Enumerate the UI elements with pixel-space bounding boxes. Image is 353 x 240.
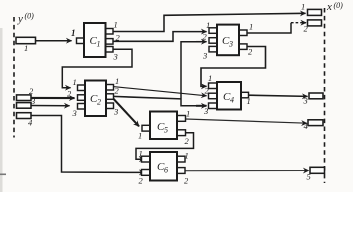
svg-text:6: 6 [164,166,168,175]
block C5 [138,109,190,147]
wire Y1 to C1 input [36,40,72,42]
scan gutter smudge left edge [0,28,6,192]
svg-text:3: 3 [228,40,233,49]
svg-text:2: 2 [29,86,34,96]
block C3 [202,20,253,61]
wire C2 out2 to C5 in1 (steep diagonal) [113,98,139,126]
svg-text:2: 2 [248,47,253,57]
wire Y3 to C2 in3 [31,105,70,107]
net label y superscript [17,12,34,26]
svg-text:3: 3 [72,108,77,118]
svg-text:x: x [326,1,332,13]
input rail Y (dashed) [13,17,15,138]
block C2 [67,76,120,118]
terminal Y2 [17,86,35,101]
svg-text:1: 1 [97,40,101,49]
svg-text:1: 1 [24,43,28,53]
svg-text:1: 1 [186,109,190,119]
svg-text:y: y [17,13,23,25]
svg-text:1: 1 [249,22,253,32]
svg-text:5: 5 [164,126,168,135]
wire Y4 to C6 in2 [31,116,145,173]
output rail X (dashed) [324,8,326,183]
svg-text:3: 3 [113,107,118,117]
svg-text:1: 1 [208,73,212,83]
svg-text:2: 2 [139,176,144,186]
wire C2 out1 to C4 in2 (diagonal) [113,87,207,96]
block C1 [77,20,121,62]
svg-text:2: 2 [67,89,72,99]
wire C2 out2 to bus (shallow diagonal) [113,96,181,99]
svg-text:3: 3 [30,96,35,106]
svg-text:5: 5 [307,172,311,182]
svg-text:1: 1 [301,2,305,12]
svg-text:4: 4 [230,96,234,105]
terminal Y1 [16,37,36,53]
wire C1 out3 to C2 in1 [62,49,132,87]
svg-text:(0): (0) [25,12,35,21]
svg-text:2: 2 [203,32,208,42]
svg-text:3: 3 [113,52,118,62]
vertical bus from C2 out2 to C3 in2 and C4 in3 [181,42,207,106]
wire C6 out2 to X terminal 5 [185,170,309,172]
label 1 (C1 input, bold) [71,28,76,38]
svg-text:3: 3 [203,106,208,116]
svg-text:1: 1 [206,20,210,30]
net label x superscript [326,1,343,13]
svg-text:1: 1 [138,131,142,141]
svg-text:(0): (0) [334,1,344,10]
terminal X1 [301,2,322,16]
svg-text:2: 2 [185,136,190,146]
terminal X3 [303,93,324,106]
svg-text:1: 1 [185,151,189,161]
wire C5 out1 to X terminal 4 [186,119,307,123]
svg-text:1: 1 [73,77,77,87]
terminal X2 [304,20,322,34]
svg-text:1: 1 [139,149,143,159]
wire C3 out2 to C4 in1 [201,47,266,87]
block C4 [203,73,251,116]
terminal X5 [307,167,325,181]
wire C3 out1 to X terminal 2 [247,23,306,33]
terminal Y4 [17,113,34,128]
svg-text:4: 4 [28,118,33,128]
terminal X4 [304,120,324,131]
wire C1 out1 to X terminal 1 [113,13,306,31]
svg-text:1: 1 [115,76,119,86]
wire C5 out2 to C6 in1 [136,133,194,159]
terminal Y3 [17,96,36,108]
wire Y2 to C2 in2 [31,97,75,99]
block C6 [139,149,190,186]
svg-text:3: 3 [202,51,207,61]
svg-text:2: 2 [97,98,101,107]
wire C1 out2 to C3 in1 [113,32,207,42]
svg-text:3: 3 [303,96,308,106]
svg-text:1: 1 [114,20,118,30]
svg-text:1: 1 [247,96,251,106]
wire C4 out1 to X terminal 3 [249,95,308,96]
svg-text:1: 1 [71,28,76,38]
svg-text:2: 2 [184,176,189,186]
